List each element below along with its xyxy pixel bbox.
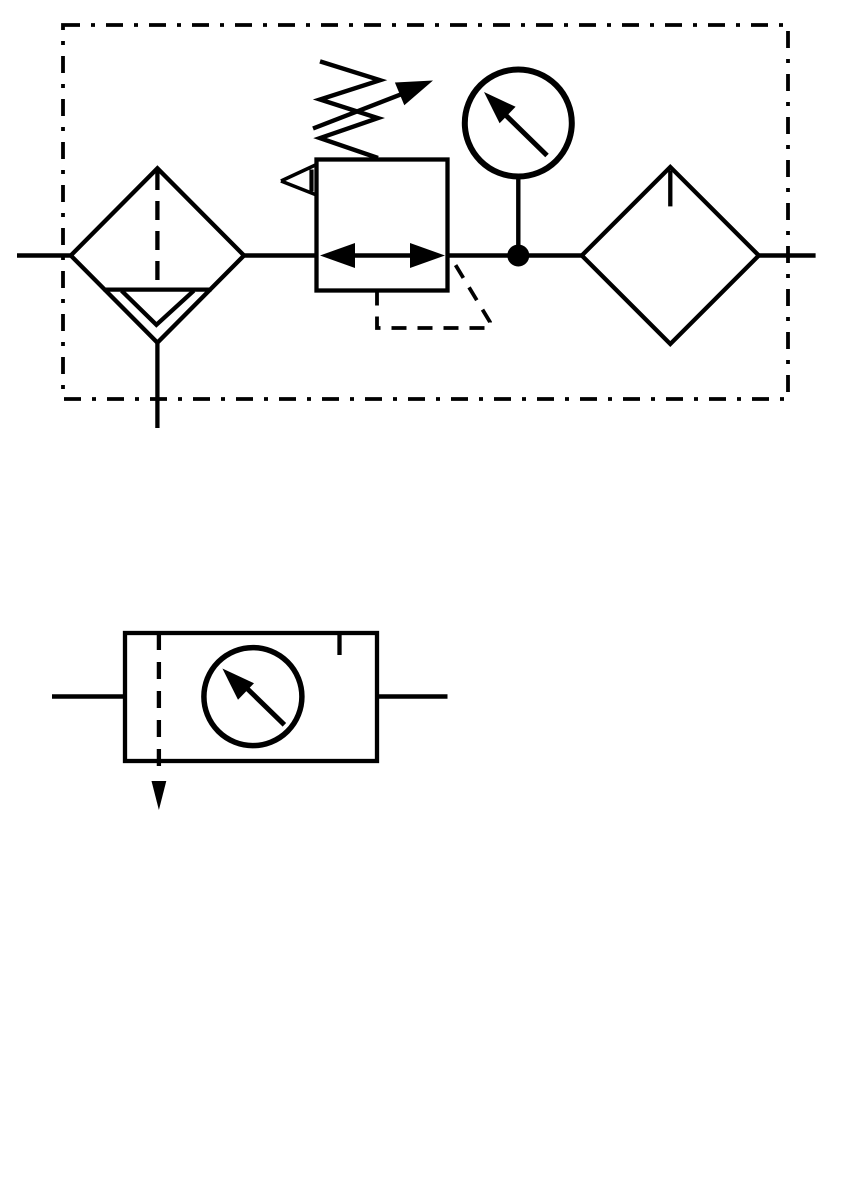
gauge in unit [204,648,302,746]
wire: outlet line [759,253,816,257]
regulator tick [337,633,341,655]
enclosure (service unit boundary, dash-dot) [63,25,788,399]
junction node [507,245,529,267]
wire: inlet line [17,253,71,257]
regulator spring [320,61,380,158]
regulator body [317,160,448,291]
regulator relief vent triangle [281,165,317,196]
unit body [125,633,377,761]
wire: gauge stem [516,177,520,256]
wire: filter drain [155,343,159,428]
wire: regulator to lubricator [448,253,583,257]
wire: inlet [52,694,125,698]
regulator adjustment arrow [313,81,433,129]
regulator flow arrow (double headed) [320,243,445,268]
pilot feedback line (dashed) [377,258,490,329]
filter F (with water separator) [71,168,244,342]
pressure gauge [465,70,572,177]
lubricator L [582,167,759,344]
wire: filter to regulator [244,253,317,257]
wire: outlet [377,694,448,698]
condensate drain (dashed with arrow) [157,633,161,775]
simplified service unit symbol [52,633,448,810]
